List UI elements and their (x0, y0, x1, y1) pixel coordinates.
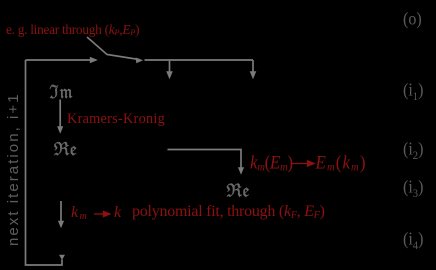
label T3 right part (316, 152, 367, 174)
arrowhead drop 2 (250, 71, 257, 79)
wire drop branch 2 (252, 60, 254, 72)
arrowhead i4 to rail (59, 255, 65, 260)
label T4 k (114, 204, 121, 222)
label T1: e.g. linear through (6, 22, 139, 38)
wire Kramers-Kronig arrow Im to Re (59, 100, 61, 128)
wire i3 to i4 arrow (60, 201, 62, 223)
label T2: Kramers-Kronig (67, 111, 165, 128)
arrowhead drop 1 (166, 71, 173, 79)
label (i3) (403, 178, 423, 198)
node Re fraktur row i3 (227, 183, 249, 196)
wire drop branch 1 (169, 60, 171, 72)
label next iteration (1, 90, 17, 248)
arrowhead i3-i4 (58, 221, 64, 229)
label (i2) (403, 140, 423, 160)
label T4 km (71, 204, 88, 222)
arrowhead KK (57, 126, 63, 134)
wire loop left/bottom rail (26, 60, 63, 265)
label (i1) (403, 81, 423, 101)
wire main line after node o (145, 59, 254, 61)
label T4 polynomial (132, 203, 325, 221)
red arrow in T4 (94, 213, 105, 215)
arrowhead diagonal annotation (136, 58, 144, 64)
red arrow in T3 (94, 161, 314, 217)
arrowhead right at node o (90, 57, 98, 64)
wire Re row to step i3 (168, 150, 242, 169)
wire top horizontal into node o (26, 59, 92, 61)
label (o) (403, 10, 422, 30)
wire annotation diagonal from T1 (87, 37, 137, 59)
label (i4) (403, 230, 423, 250)
node Re fraktur row i2 (54, 142, 76, 155)
node Im fraktur (50, 85, 73, 99)
label T3 left part (250, 152, 293, 174)
arrowhead into Re2 (238, 167, 244, 175)
